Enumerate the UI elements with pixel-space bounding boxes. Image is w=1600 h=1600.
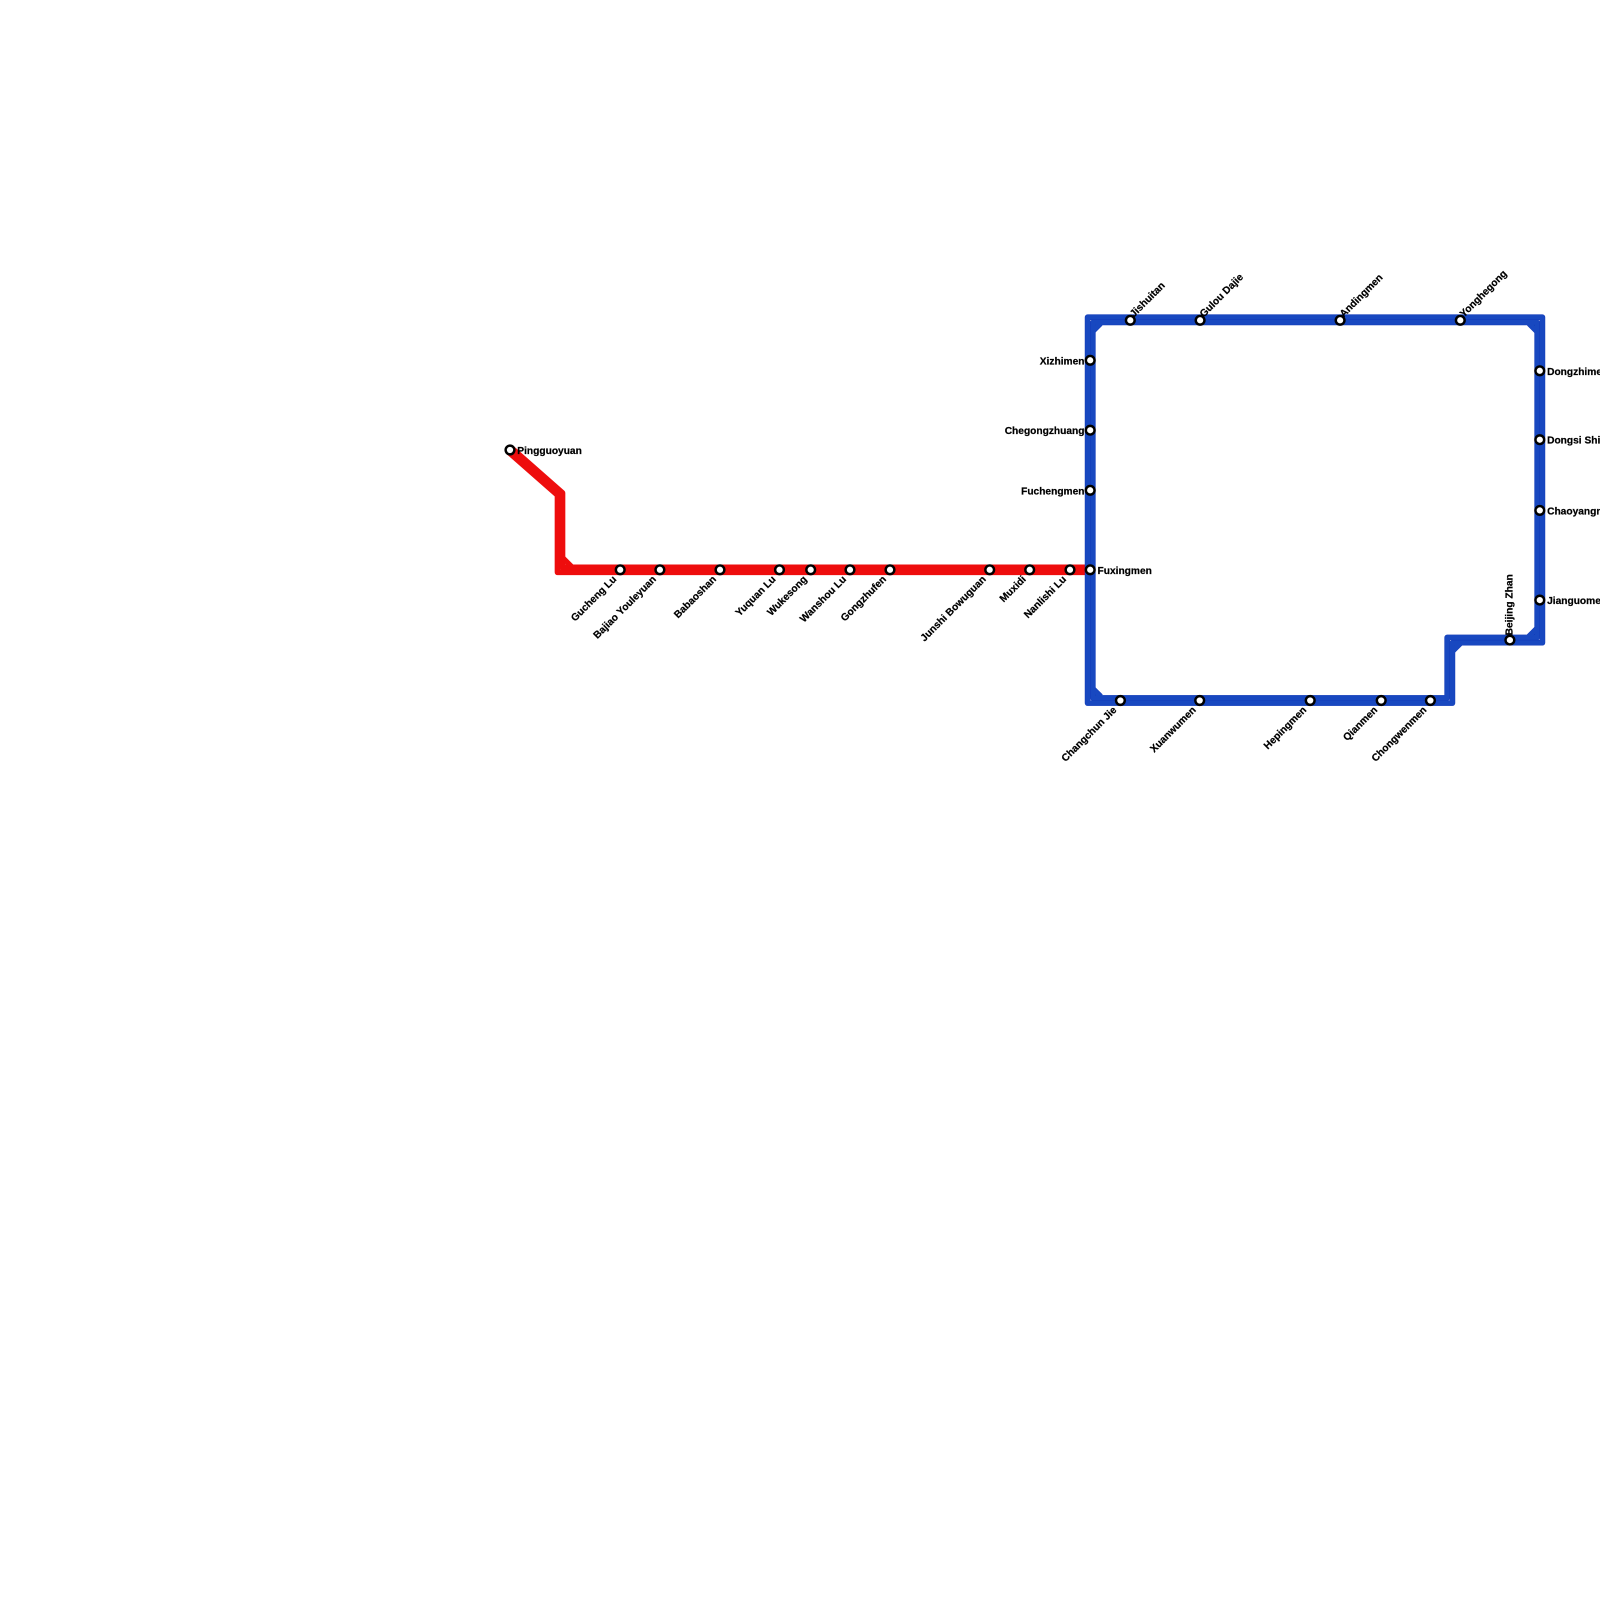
station Xizhimen (1086, 356, 1095, 365)
Line 2 corner chamfer C4 edge (1453, 643, 1461, 651)
svg-text:Jianguomen: Jianguomen (1547, 596, 1600, 607)
station Dongzhimen (1535, 366, 1544, 375)
Line 2 blue outer ring fill (1088, 317, 1543, 703)
station Xuanwumen (1195, 696, 1204, 705)
station Beijing Zhan (1506, 636, 1515, 645)
station Hepingmen (1306, 696, 1315, 705)
svg-text:Chegongzhuang: Chegongzhuang (1005, 426, 1085, 437)
station Dongsi Shitiao (1535, 435, 1544, 444)
Line 2 corner chamfer C3 edge (1529, 629, 1537, 637)
station Wanshou Lu (846, 565, 855, 574)
svg-text:Fuchengmen: Fuchengmen (1021, 486, 1084, 497)
station Junshi Bowuguan (985, 565, 994, 574)
svg-text:Dongsi Shitiao: Dongsi Shitiao (1547, 436, 1600, 447)
station Gongzhufen (886, 565, 895, 574)
station Yuquan Lu (775, 565, 784, 574)
Line 2 corner chamfer TL fill (1094, 324, 1101, 331)
Line 2 corner chamfer C4 fill (1453, 643, 1461, 651)
Line 2 corner chamfer TR edge (1529, 324, 1537, 332)
station Wukesong (806, 565, 815, 574)
Line 2 corner chamfer TR fill (1529, 324, 1537, 332)
station Fuchengmen (1086, 486, 1095, 495)
Line 2 blue outer ring edge (1088, 317, 1543, 703)
svg-text:Chaoyangmen: Chaoyangmen (1547, 506, 1600, 517)
station Bajiao Youleyuan (656, 565, 665, 574)
station Qianmen (1377, 696, 1386, 705)
station Nanlishi Lu (1066, 565, 1075, 574)
station Changchun Jie (1116, 696, 1125, 705)
Line 2 corner chamfer TL edge (1094, 324, 1101, 331)
Line 2 corner chamfer BL edge (1094, 689, 1101, 696)
station Gucheng Lu (616, 565, 625, 574)
Line 2 blue inner ring fill (1093, 322, 1537, 697)
svg-text:Fuxingmen: Fuxingmen (1098, 566, 1152, 577)
Line 2 corner chamfer BL fill (1094, 689, 1101, 696)
svg-text:Beijing Zhan: Beijing Zhan (1505, 574, 1516, 635)
svg-text:Pingguoyuan: Pingguoyuan (517, 446, 582, 457)
station Yonghegong (1456, 316, 1465, 325)
station Chaoyangmen (1535, 506, 1544, 515)
station Chegongzhuang (1086, 426, 1095, 435)
station Jishuitan (1126, 316, 1135, 325)
station Chongwenmen (1426, 696, 1435, 705)
Line 1 red direction B (lower) (508, 452, 1087, 573)
Line 2 corner chamfer C3 fill (1529, 629, 1537, 637)
Line 1 red corner chamfer (562, 557, 574, 569)
svg-text:Xizhimen: Xizhimen (1040, 356, 1085, 367)
station Andingmen (1336, 316, 1345, 325)
station Babaoshan (716, 565, 725, 574)
Line 2 blue inner ring edge (1093, 322, 1537, 697)
station Fuxingmen (1086, 565, 1095, 574)
station Pingguoyuan (506, 446, 515, 455)
svg-text:Dongzhimen: Dongzhimen (1547, 367, 1600, 378)
Line 1 red direction A (upper) (512, 448, 1087, 567)
station Jianguomen (1535, 596, 1544, 605)
station Muxidi (1025, 565, 1034, 574)
station Gulou Dajie (1196, 316, 1205, 325)
